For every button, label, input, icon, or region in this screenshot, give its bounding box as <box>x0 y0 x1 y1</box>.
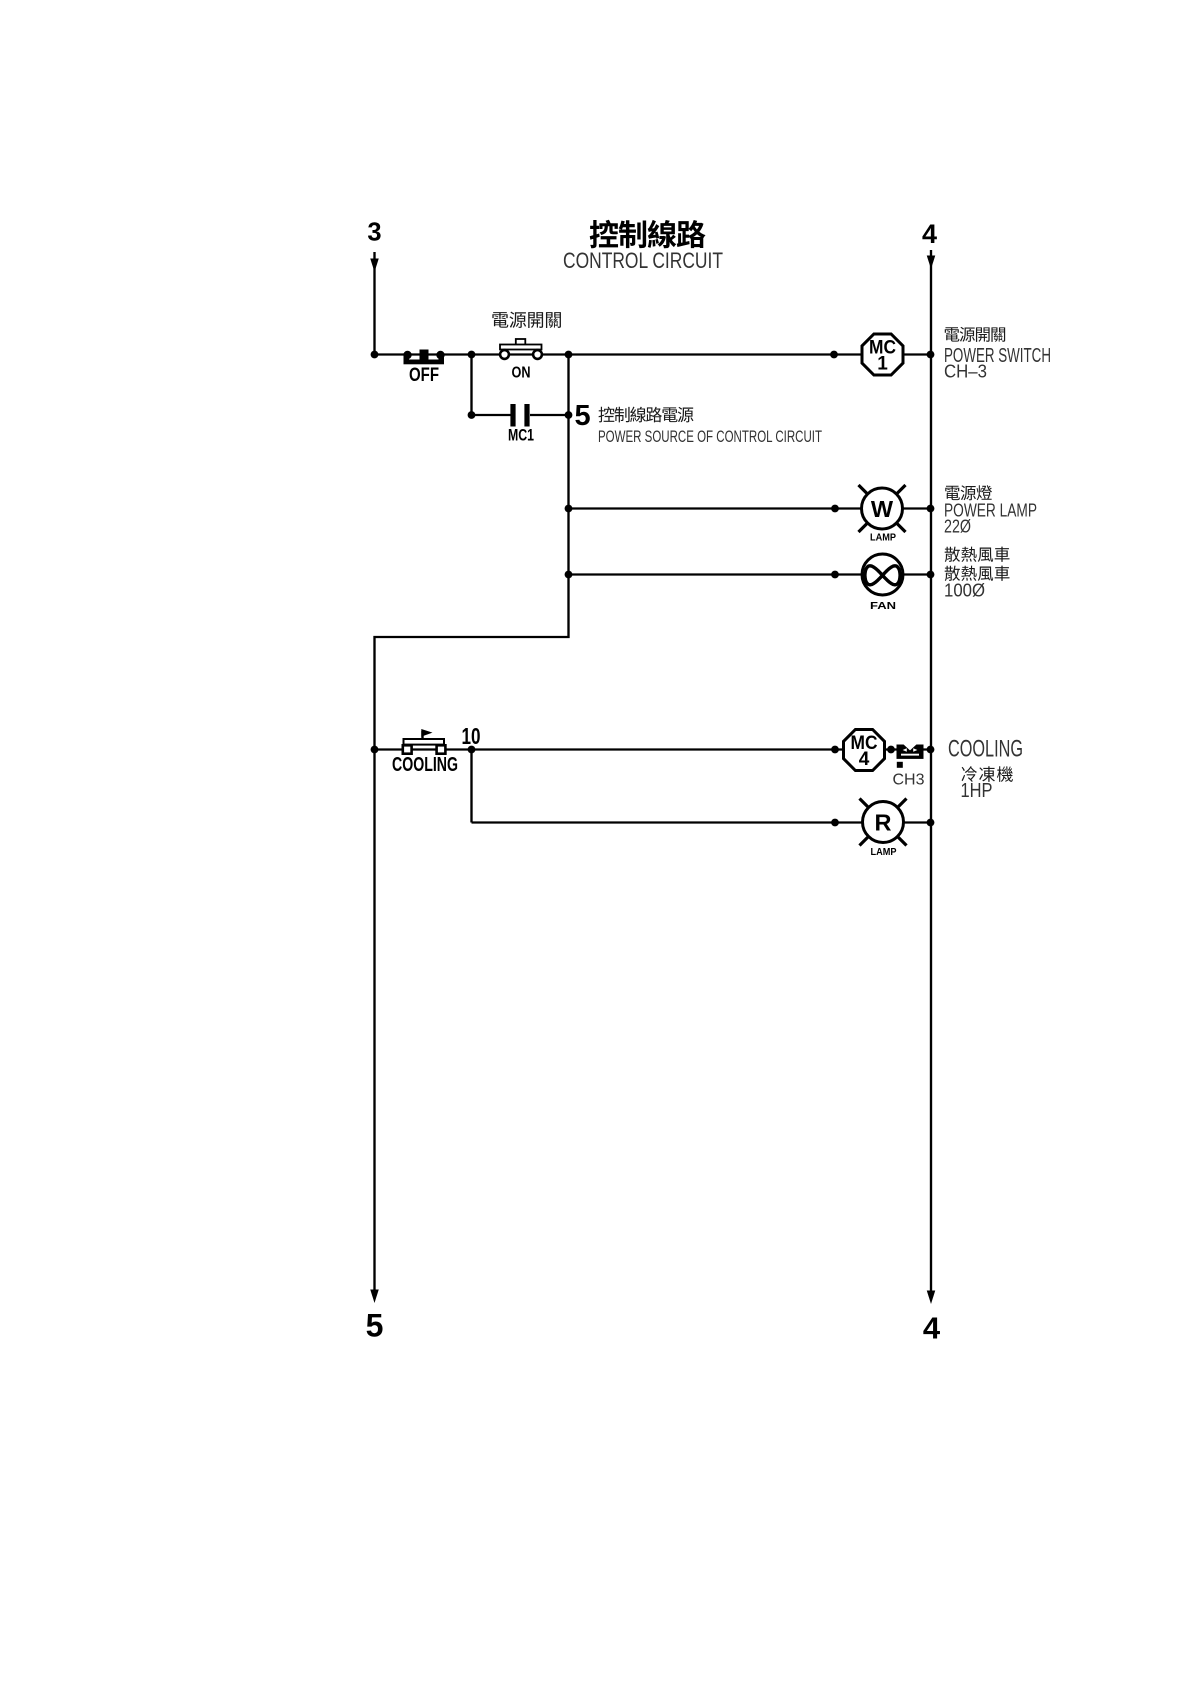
arrow: top of right rail (from node 4) <box>927 256 936 270</box>
wire: cooling row <box>375 748 932 750</box>
svg-text:1: 1 <box>877 354 888 375</box>
contact MC1 (holding contact) <box>513 404 527 427</box>
svg-text:100Ø: 100Ø <box>944 580 985 601</box>
junction dots fan row <box>565 571 573 579</box>
arrow: bottom of left rail (to node 5) <box>370 1290 379 1304</box>
wire: branch down from main wire, jog left, left rail to 5 (bottom) <box>375 355 569 1297</box>
junction dots cooling row <box>371 746 379 754</box>
arrow: bottom of right rail (to node 4) <box>927 1291 936 1305</box>
svg-text:LAMP: LAMP <box>871 847 897 858</box>
coil MC1 (contactor, octagon) <box>862 334 903 375</box>
junction dots R lamp row <box>831 819 839 827</box>
svg-text:MC1: MC1 <box>508 427 534 445</box>
svg-text:1HP: 1HP <box>961 780 993 802</box>
wire: power lamp row <box>569 507 932 509</box>
wire: node 10 branch to R lamp row <box>472 750 932 823</box>
junction dots lamp row <box>565 505 573 513</box>
label 電源開關 (above ON) <box>492 312 561 328</box>
svg-text:4: 4 <box>859 749 870 770</box>
svg-text:W: W <box>871 496 894 522</box>
svg-text:COOLING: COOLING <box>948 736 1023 763</box>
pushbutton ON (normally open), 電源開關 <box>500 339 542 359</box>
junction dots MC1 row <box>468 411 476 419</box>
junction dots on main row <box>371 351 935 359</box>
svg-text:R: R <box>875 810 892 836</box>
pushbutton COOLING (normally open with latch flag) <box>403 729 446 754</box>
label 電源燈 <box>945 485 992 500</box>
wire: fan row <box>569 573 932 575</box>
motor FAN (cooling fan) <box>862 554 903 595</box>
svg-text:POWER SOURCE OF CONTROL CI: POWER SOURCE OF CONTROL CIRCUIT <box>598 428 822 446</box>
label 散熱風車 line2 <box>945 566 1010 581</box>
svg-text:CH3: CH3 <box>893 772 925 789</box>
wire: right rail 4 <box>930 250 932 1296</box>
label 冷凍機 <box>962 766 1013 782</box>
wire: left rail 3 (top) <box>373 252 375 355</box>
lamp R (cooling run lamp) <box>860 799 907 846</box>
label 電源開關 (right) <box>945 327 1005 342</box>
label 散熱風車 line1 <box>945 547 1010 562</box>
coil MC4 (contactor, octagon) <box>844 730 885 771</box>
svg-text:10: 10 <box>462 723 481 749</box>
label 控制線路電源 <box>599 407 694 423</box>
title 控制線路 <box>590 220 706 249</box>
arrow: top of left rail (from node 3) <box>370 259 379 273</box>
svg-text:22Ø: 22Ø <box>944 516 971 537</box>
wire: main row to MC1 coil <box>375 353 863 355</box>
svg-text:COOLING: COOLING <box>392 754 458 776</box>
pushbutton OFF (normally closed) <box>403 350 444 365</box>
svg-text:ON: ON <box>512 365 531 382</box>
svg-text:CONTROL CIRCUIT: CONTROL CIRCUIT <box>563 248 723 273</box>
lamp W (power lamp) <box>859 485 906 532</box>
svg-text:LAMP: LAMP <box>870 533 896 544</box>
overload relay CH3 (thermal) <box>897 745 924 768</box>
svg-text:CH–3: CH–3 <box>944 361 987 382</box>
svg-text:5: 5 <box>366 1308 384 1344</box>
svg-text:OFF: OFF <box>409 365 439 386</box>
wire: MC1 contact branch <box>472 355 569 416</box>
svg-text:5: 5 <box>575 400 591 432</box>
svg-text:4: 4 <box>922 219 937 249</box>
svg-text:3: 3 <box>367 219 381 247</box>
wire: MC1 coil to right rail <box>903 353 931 355</box>
svg-text:4: 4 <box>923 1311 941 1346</box>
svg-text:FAN: FAN <box>870 600 896 612</box>
